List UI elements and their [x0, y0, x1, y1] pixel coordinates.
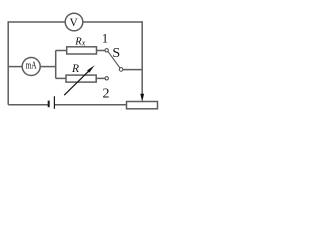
svg-text:V: V [69, 17, 78, 29]
svg-text:R: R [71, 63, 79, 75]
svg-text:1: 1 [102, 32, 108, 46]
svg-text:2: 2 [103, 87, 110, 102]
svg-text:S: S [112, 46, 120, 61]
svg-text:x: x [81, 39, 86, 48]
svg-text:mA: mA [26, 61, 37, 72]
